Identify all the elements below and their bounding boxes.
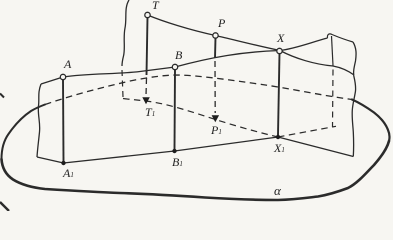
torn right edge of front strip (wavy) [352,42,356,157]
point T (circle) [145,12,150,17]
label A [64,58,71,70]
label P1 [211,124,222,136]
right strip hidden torn edge upper solid part [332,36,334,66]
label B1 [172,156,183,168]
trace T1 P1 X1 (dashed) [123,99,278,138]
label T1 [145,106,155,118]
trace A1B1X1 extended hidden (dashed) [278,126,336,137]
perpendicular T T1 solid part [147,17,148,75]
label alpha [274,184,281,197]
perpendicular B B1 [174,69,177,149]
plane alpha far edge hidden (dashed arc) [45,75,352,105]
strip ABX top-left corner segment [41,77,63,84]
strip ABX bottom-left corner segment [37,157,64,163]
strip ABX torn left edge [37,84,41,157]
point X (circle) [277,48,282,53]
point B1 (dot) [172,149,176,153]
perpendicular A A1 [62,79,65,161]
plane alpha far edge right (solid part) [352,100,390,142]
perpendicular P P1 solid part [214,38,217,59]
label X1 [274,142,285,154]
tall strip torn left edge hidden (dashed) [122,70,123,97]
point T1 (arrowhead) [142,97,150,104]
point B (circle) [172,64,177,69]
point A (circle) [60,74,65,79]
line A B X (top edge of long strip) [63,38,328,77]
plane alpha near (bottom) outline [2,141,390,200]
torn top bump right [327,34,353,42]
label A1 [63,167,74,179]
stray mark bottom-left corner [0,202,9,211]
perpendicular P P1 hidden part (dashed) [214,61,216,113]
line T P X (top edge of tall strip) [148,15,355,75]
trace line A1 B1 X1 (bottom edge of long strip) [64,137,279,163]
label B [175,49,182,61]
point X1 (dot) [276,135,280,139]
point P1 (arrowhead) [212,115,220,122]
label T [152,0,159,11]
stray mark left edge [0,94,4,98]
label P [218,17,225,29]
tall strip torn left edge solid [122,0,129,66]
right strip hidden torn edge (dashed vertical) [332,70,335,128]
plane alpha far edge left (solid part) [2,105,46,160]
perpendicular T T1 hidden part (dashed) [145,78,148,96]
label X [277,32,284,44]
point P (circle) [213,33,218,38]
trace T1 X1 extended solid past X1 [278,137,353,157]
point A1 (dot) [61,161,65,165]
perpendicular X X1 [278,53,280,135]
